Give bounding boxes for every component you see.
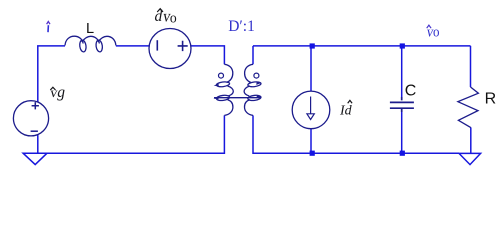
label i-hat — [47, 22, 50, 33]
minus sign in vg — [31, 130, 38, 132]
wire inductor to source — [116, 45, 150, 47]
primary winding loops — [216, 81, 230, 87]
current source circle — [292, 91, 330, 129]
junction node top capacitor — [400, 43, 405, 48]
wire vg bottom to ground — [37, 135, 39, 153]
label vo — [426, 24, 440, 40]
secondary top rail — [253, 45, 471, 47]
junction node top current source — [310, 43, 315, 48]
secondary top lead — [252, 46, 254, 64]
plus sign inside d^vo source — [178, 41, 188, 51]
junction dots — [310, 43, 405, 155]
label d-hat vo — [155, 6, 177, 26]
svg-text:C: C — [405, 83, 417, 100]
junction node bottom capacitor — [400, 151, 405, 156]
inductor L — [65, 36, 83, 45]
svg-text:D′:1: D′:1 — [228, 18, 255, 35]
secondary bottom lead and rail — [253, 115, 459, 153]
svg-text:g: g — [57, 84, 65, 101]
resistor zigzag — [458, 87, 479, 128]
resistor leads — [470, 46, 472, 87]
junction node bottom current source — [310, 151, 315, 156]
ground left — [23, 153, 47, 164]
label I d-hat — [339, 100, 353, 118]
wire source to transformer primary corner — [191, 46, 225, 64]
svg-text:L: L — [86, 21, 94, 37]
minus bar inside d^vo source — [156, 40, 158, 50]
primary polarity dot — [219, 73, 224, 78]
capacitor leads — [401, 46, 403, 97]
arrow inside current source — [310, 97, 312, 115]
transformer center line — [214, 97, 261, 99]
svg-text:R: R — [485, 91, 497, 108]
secondary winding loops — [248, 81, 262, 87]
svg-text:o: o — [170, 10, 177, 26]
transformer loop arrow tips — [214, 82, 262, 99]
capacitor plates and stubs — [390, 97, 414, 112]
wire primary bottom — [47, 115, 224, 153]
voltage source vg circle — [13, 101, 48, 136]
ground right — [459, 153, 481, 164]
wire top-left corner — [38, 46, 65, 102]
label vg — [49, 84, 65, 101]
transformer secondary winding arcs — [245, 64, 253, 82]
secondary polarity dot — [254, 73, 259, 78]
svg-text:o: o — [433, 24, 440, 40]
svg-text:Id: Id — [339, 104, 353, 119]
plus sign in vg — [32, 102, 39, 109]
current source leads — [310, 46, 312, 91]
transformer primary winding arcs — [224, 64, 232, 82]
voltage source d^vo circle — [149, 29, 191, 69]
